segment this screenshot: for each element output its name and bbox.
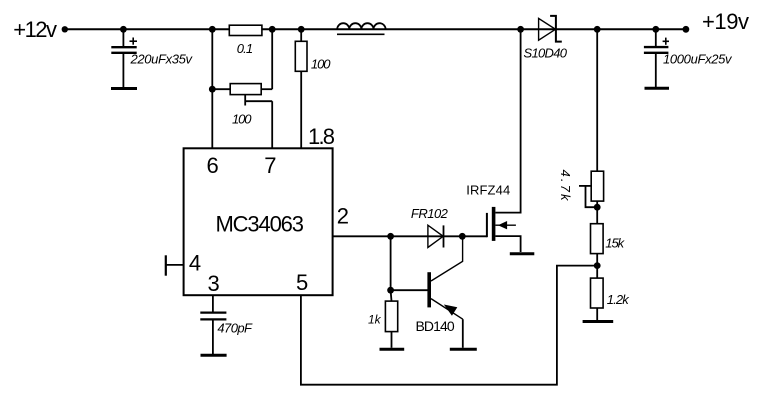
capacitor C1 plus sign — [130, 40, 138, 42]
node terminal +19v — [683, 26, 690, 33]
op-amp U1 MC34063 box — [184, 148, 333, 295]
resistor R4 1k box — [385, 301, 397, 332]
svg-text:S10D40: S10D40 — [524, 46, 568, 61]
ground 1.2k — [583, 320, 614, 323]
transistor Q1 BD140 base bar — [427, 272, 431, 307]
wire pin4 stub — [166, 264, 184, 266]
wire capacitor C1 top lead — [122, 29, 124, 47]
transistor Q2 IRFZ44 gate electrode — [486, 213, 488, 237]
wire base node to 1k — [390, 290, 393, 301]
svg-text:1k: 1k — [368, 313, 382, 327]
node drain rail junction — [517, 26, 524, 33]
transistor Q2 body arrow line — [495, 224, 516, 226]
svg-text:100: 100 — [232, 112, 252, 127]
node terminal +12v — [62, 26, 68, 32]
wire top rail +12v to +19v — [65, 28, 686, 30]
diode D1 S10D40 triangle — [539, 18, 556, 40]
capacitor C3 470pF plates — [200, 312, 226, 314]
diode D2 FR102 triangle — [428, 225, 443, 247]
node R2 left junction — [209, 86, 216, 93]
node feedback junction — [594, 262, 601, 269]
svg-text:2: 2 — [337, 204, 349, 229]
ground C2 — [645, 87, 670, 90]
wire tap horizontal to pin7 — [245, 100, 272, 102]
svg-text:IRFZ44: IRFZ44 — [466, 183, 510, 198]
wire R-100h tap stub — [244, 95, 246, 106]
resistor R7 1.2k box — [591, 278, 604, 308]
wire feedback node to pin5 route — [301, 266, 597, 385]
svg-text:15k: 15k — [605, 235, 625, 250]
node R3 rail junction — [298, 26, 305, 33]
wire feedback divider riser x=597 — [596, 29, 598, 320]
ground C1 — [111, 87, 137, 90]
svg-text:FR102: FR102 — [411, 206, 449, 221]
wire capacitor C1 bottom lead — [122, 53, 124, 88]
svg-text:1000uFx25v: 1000uFx25v — [663, 52, 733, 67]
ground 470pF — [201, 354, 227, 357]
svg-text:+19v: +19v — [702, 9, 749, 34]
svg-text:4: 4 — [189, 251, 201, 276]
svg-text:220uFx35v: 220uFx35v — [130, 51, 194, 66]
wire R-100h right stub — [261, 88, 272, 90]
transistor Q2 body arrow head — [499, 222, 506, 229]
wire pin2 net horizontal — [333, 235, 487, 237]
transistor Q1 emitter — [431, 299, 463, 320]
ground Q2 source — [510, 252, 535, 255]
wire MOSFET drain to rail — [495, 29, 520, 212]
inductor core line — [337, 33, 385, 35]
diode D1 cathode bar with schottky hooks — [550, 16, 562, 42]
resistor R2 100 horizontal box — [230, 84, 261, 95]
svg-text:5: 5 — [296, 270, 308, 295]
wire pin3 lead — [212, 295, 214, 312]
svg-text:+12v: +12v — [13, 17, 57, 42]
wire pin2 node down to base node — [390, 236, 392, 290]
node divider rail junction — [594, 26, 601, 33]
svg-text:1.8: 1.8 — [308, 124, 335, 149]
node 4.7k tap junction — [594, 204, 601, 211]
wire pin7 riser x=272 — [271, 101, 273, 149]
svg-text:4.7k: 4.7k — [558, 170, 573, 203]
capacitor C2 plates — [644, 46, 669, 48]
wire Q1 emitter down — [462, 319, 464, 348]
capacitor C1 plates — [111, 46, 136, 48]
pin4 terminator bar — [165, 255, 167, 275]
node R1 right junction — [269, 26, 276, 33]
resistor R3 100 vertical box — [295, 41, 307, 71]
wire vertical rail to R-100h right x=272 — [271, 29, 273, 89]
node C2 junction — [652, 26, 659, 33]
node pin6 rail junction — [209, 26, 216, 33]
transistor Q1 emitter arrow — [445, 305, 457, 315]
node gate junction — [459, 233, 466, 240]
wire BD140 base — [391, 289, 428, 291]
svg-text:MC34063: MC34063 — [216, 211, 305, 236]
wire pin8 net x=301 rail to IC — [300, 29, 302, 149]
node C1 junction — [120, 26, 127, 33]
transistor Q2 source — [495, 236, 520, 252]
diode D2 cathode bar — [443, 225, 445, 247]
wire R-100h left stub — [212, 88, 230, 90]
svg-text:470pF: 470pF — [217, 321, 253, 336]
wire 470pF bottom lead — [212, 319, 214, 354]
svg-text:100: 100 — [311, 57, 331, 72]
svg-text:6: 6 — [207, 153, 219, 178]
node pin2 junction — [387, 233, 394, 240]
wire 1k bottom lead — [391, 332, 393, 348]
wire 4.7k tap — [579, 185, 591, 187]
capacitor C2 plus sign — [663, 40, 669, 42]
wire capacitor C2 bottom lead — [655, 53, 657, 88]
svg-text:BD140: BD140 — [416, 318, 455, 334]
inductor L1 — [337, 23, 385, 29]
transistor Q2 channel bar — [492, 207, 496, 241]
resistor R5 4.7k box — [591, 171, 603, 201]
svg-text:7: 7 — [264, 153, 276, 178]
wire capacitor C2 top lead — [655, 29, 657, 47]
node base junction — [387, 287, 394, 294]
svg-text:3: 3 — [208, 271, 220, 296]
resistor R6 15k box — [591, 224, 604, 254]
transistor Q1 collector — [431, 236, 463, 281]
ground Q1 emitter — [450, 348, 477, 351]
wire vertical pin6 net x=212 — [211, 29, 213, 149]
svg-text:0.1: 0.1 — [237, 41, 253, 56]
ground 1k — [380, 348, 405, 351]
resistor R1 0.1 box — [229, 25, 262, 35]
svg-text:1.2k: 1.2k — [607, 292, 630, 307]
